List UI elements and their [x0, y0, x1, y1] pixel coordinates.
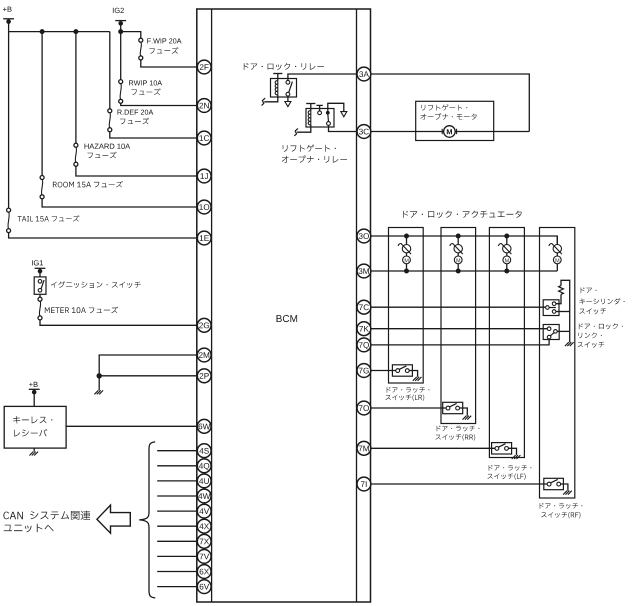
- pin 7C: [357, 300, 371, 314]
- pin 7K: [357, 322, 371, 336]
- label R.DEF 20A: [118, 110, 154, 115]
- ground (latch LF): [512, 455, 521, 459]
- label keyless line1: [13, 416, 52, 424]
- wire keyless to ground: [33, 448, 35, 452]
- label latch LR line2: [386, 395, 425, 401]
- wire keyless to pin 6W: [66, 425, 197, 427]
- ground (latch LR): [413, 377, 422, 381]
- wire CAN stub 9: [157, 571, 197, 573]
- +B terminal (keyless): [29, 382, 38, 387]
- relay RY2 coil feed T-bar: [306, 103, 315, 105]
- label ignition switch: [51, 281, 141, 288]
- wire switch to METER fuse: [39, 294, 41, 297]
- pin 3C: [357, 125, 371, 139]
- BCM right connector strip line: [356, 9, 358, 602]
- pin 1E: [197, 231, 211, 245]
- node junction bus/HAZARD: [73, 29, 78, 34]
- fuse F.WIP 20A: [139, 38, 143, 42]
- actuator M3 (RR): [456, 234, 461, 239]
- BCM label: [277, 315, 298, 322]
- label fuse-kana R.DEF: [120, 118, 149, 125]
- pin 6W: [197, 419, 211, 433]
- wire RWIP to pin 2N: [121, 103, 198, 105]
- wire pin 3A to motor loop: [371, 74, 530, 132]
- label latch LF line1: [489, 465, 532, 471]
- wire CAN stub 2: [157, 465, 197, 467]
- label link switch line1: [579, 323, 623, 329]
- actuator M4 (LF): [504, 234, 509, 239]
- pin 4W: [197, 489, 211, 503]
- label CAN line2: [4, 524, 54, 533]
- label latch LR line1: [387, 387, 430, 393]
- continuation arrow (RY2 coil): [295, 129, 298, 136]
- actuator M5 (RF): [556, 236, 558, 245]
- key cylinder switch box: [543, 300, 559, 316]
- pin 7G: [357, 364, 371, 378]
- pin 2M: [197, 348, 211, 362]
- ground (keyless): [29, 452, 38, 456]
- wire branch to F.WIP fuse: [121, 32, 141, 39]
- wire bus corner down to R.DEF: [109, 32, 111, 109]
- pin 2F: [197, 60, 211, 74]
- wire pin 2M left: [99, 355, 197, 376]
- wire pin 2P left: [99, 375, 197, 377]
- label TAIL 15A fuse: [18, 215, 80, 221]
- resistor R1 (key cylinder): [559, 286, 564, 295]
- brace for CAN pins: [139, 442, 155, 598]
- wire latch LR to ground: [409, 371, 417, 377]
- wire TAIL to pin 1E: [9, 233, 198, 238]
- relay RY1 coil: [277, 81, 279, 95]
- wire pin 7K to link switch: [371, 328, 548, 330]
- fuse TAIL 15A: [7, 208, 11, 212]
- pin 2N: [197, 99, 211, 113]
- ground (2M/2P): [94, 390, 103, 394]
- wire RY1 lower contact down: [287, 96, 289, 101]
- door latch switch (RR): [443, 402, 463, 413]
- pin 1J: [197, 169, 211, 183]
- ground (latch RF): [563, 491, 572, 495]
- wire pin 7Q to link switch: [371, 339, 549, 345]
- pin 7Q: [357, 338, 371, 352]
- pin 1C: [197, 131, 211, 145]
- label RWIP 10A: [129, 80, 162, 85]
- link switch box: [543, 325, 559, 340]
- BCM left connector strip line: [211, 9, 213, 602]
- IG1 terminal: [32, 260, 43, 265]
- relay RY2 coil: [310, 111, 312, 125]
- wire METER to pin 2G: [40, 320, 197, 325]
- wire RY2 lower contact to pin 3C: [329, 125, 358, 131]
- wire +B to keyless box: [33, 392, 35, 406]
- triangle arrow (RY1 out): [285, 102, 291, 107]
- pin 3A: [357, 67, 371, 81]
- label latch LF line2: [488, 473, 526, 479]
- pin 2G: [197, 318, 211, 332]
- arrow to CAN system units: [97, 505, 130, 533]
- ground (key cylinder line): [565, 342, 574, 346]
- label CAN line1: [3, 511, 90, 520]
- wire CAN stub 4: [157, 495, 197, 497]
- pin 4S: [197, 444, 211, 458]
- label METER 10A fuse: [45, 307, 118, 314]
- label latch RR line2: [436, 434, 476, 440]
- wire IG1 to ignition switch: [39, 271, 41, 277]
- node junction IG2/F.WIP branch: [118, 29, 123, 34]
- motor M1 symbol: [444, 126, 456, 138]
- ignition switch contacts: [38, 280, 42, 284]
- pin 4Q: [197, 459, 211, 473]
- liftgate opener motor box: [416, 101, 494, 140]
- link switch contacts: [547, 327, 551, 331]
- label key cylinder line2: [579, 298, 624, 304]
- pin 7O: [357, 401, 371, 415]
- wire RY1 switch to pin 3A: [288, 74, 357, 80]
- wire pin 7M to latch LF: [371, 447, 495, 449]
- wire link switch common right: [557, 330, 570, 332]
- label liftgate relay line2: [282, 155, 347, 162]
- label key cylinder line1: [581, 287, 597, 293]
- +B terminal (top left): [3, 7, 12, 12]
- wire down to ROOM fuse: [41, 32, 43, 176]
- label door lock relay: [244, 63, 324, 70]
- wire HAZARD to pin 1J: [76, 166, 197, 176]
- label link switch line2: [578, 333, 602, 339]
- pin 4U: [197, 474, 211, 488]
- wire down to HAZARD fuse: [75, 32, 77, 144]
- wire pin 3O across actuators: [371, 236, 558, 245]
- pin 7M: [357, 441, 371, 455]
- fuse HAZARD 10A: [74, 143, 78, 147]
- ground (latch RR): [463, 416, 472, 420]
- label latch RR line1: [437, 426, 480, 432]
- wire CAN stub 1: [157, 450, 197, 452]
- relay RY2 fixed contact: [318, 111, 322, 115]
- pin 6X: [197, 565, 211, 579]
- pin 3O: [357, 229, 371, 243]
- wire CAN stub 5: [157, 510, 197, 512]
- wire CAN stub 3: [157, 480, 197, 482]
- label fuse-kana F.WIP: [149, 47, 178, 54]
- wire CAN stub 6: [157, 525, 197, 527]
- BCM module box: [197, 9, 371, 602]
- door box 2 (RR): [441, 228, 476, 424]
- pin 2P: [197, 369, 211, 383]
- relay RY1 box: [271, 79, 297, 98]
- wire pin 7C to key cylinder switch: [371, 306, 546, 308]
- fuse METER 10A: [38, 297, 42, 301]
- wire down to TAIL fuse: [8, 32, 10, 209]
- label motor line1: [421, 104, 467, 110]
- label F.WIP 20A: [147, 38, 181, 43]
- label link switch line3: [578, 342, 605, 348]
- label key cylinder line3: [579, 308, 606, 314]
- IG2 terminal: [113, 8, 124, 13]
- door latch switch (LF): [492, 443, 512, 454]
- wire latch LF to ground: [508, 448, 516, 455]
- relay RY1 coil to ground arrow: [264, 95, 278, 102]
- pin 1O: [197, 200, 211, 214]
- pin 7I: [357, 477, 371, 491]
- wire IG2 down: [120, 23, 122, 79]
- wire CAN stub 10: [157, 586, 197, 588]
- wire +B down to bus: [8, 22, 10, 32]
- wire pin 7G to latch LR: [371, 370, 396, 372]
- pin 6V: [197, 580, 211, 594]
- door latch switch (LR): [392, 365, 412, 376]
- label motor line2: [420, 113, 476, 119]
- wire resistor top hook: [561, 280, 570, 342]
- door box 3 (LF): [489, 228, 524, 458]
- wire CAN stub 8: [157, 555, 197, 557]
- continuation arrow (RY1 coil): [262, 98, 265, 105]
- fuse ROOM 15A: [40, 176, 44, 180]
- label latch RF line2: [541, 512, 580, 518]
- pin 7V: [197, 550, 211, 564]
- node junction 2M/2P: [97, 373, 102, 378]
- label ROOM 15A fuse: [53, 181, 123, 188]
- key cylinder contacts: [546, 306, 550, 310]
- wire latch RR to ground: [460, 408, 468, 416]
- keyless receiver box: [4, 406, 66, 448]
- pin 7X: [197, 534, 211, 548]
- wire ROOM to pin 1O: [42, 199, 197, 207]
- label liftgate relay line1: [283, 145, 336, 152]
- node junction bus/ROOM: [40, 29, 45, 34]
- label latch RF line1: [540, 503, 583, 509]
- label door lock actuator: [403, 211, 522, 219]
- label keyless line2: [14, 429, 47, 436]
- wire resistor bottom: [556, 294, 561, 303]
- wire R.DEF to pin 1C: [110, 132, 198, 138]
- fuse R.DEF 20A: [108, 109, 112, 113]
- label HAZARD 10A: [85, 144, 131, 149]
- wire pin 7I to latch RF: [371, 483, 548, 485]
- fuse RWIP 10A: [119, 80, 123, 84]
- wire latch RF to ground: [560, 484, 568, 491]
- wire pin 7O to latch RR: [371, 407, 446, 409]
- relay RY2 box: [306, 109, 334, 128]
- wire RY2 common up-over: [328, 103, 344, 113]
- wire down to ground: [98, 376, 100, 391]
- pin 4X: [197, 519, 211, 533]
- ignition switch SW1 box: [34, 277, 46, 294]
- wire +B bus: [9, 31, 110, 33]
- wire pin 3C to motor: [371, 131, 530, 133]
- label fuse-kana RWIP: [131, 88, 160, 95]
- door box 4 (RF): [540, 228, 575, 499]
- pin 3M: [357, 264, 371, 278]
- wire pin 3M across actuators: [371, 270, 558, 272]
- pin 4V: [197, 504, 211, 518]
- door box 1 (LR): [389, 228, 424, 384]
- relay RY1 coil feed T-bar: [273, 73, 282, 75]
- wire CAN stub 7: [157, 540, 197, 542]
- wire F.WIP to pin 2F: [141, 60, 198, 67]
- relay RY1 switch contacts: [286, 80, 290, 84]
- relay RY2 switch: [326, 111, 330, 115]
- relay RY2 coil to ground arrow: [297, 125, 311, 132]
- label fuse-kana HAZARD: [87, 152, 116, 159]
- door latch switch (RF): [544, 478, 564, 489]
- wire key cylinder lower contact: [556, 311, 570, 313]
- actuator M2 (LR): [404, 234, 409, 239]
- triangle arrow (RY2 out): [341, 112, 347, 117]
